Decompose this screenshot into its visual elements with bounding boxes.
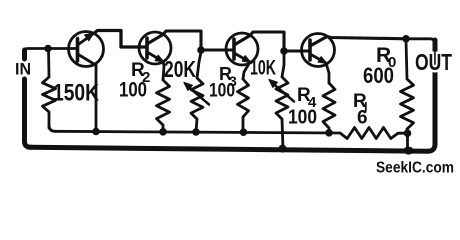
transistor Q4 base bar bbox=[308, 40, 312, 60]
transistor Q3 base bar bbox=[232, 39, 236, 59]
wire outer border bottom side (common rail) bbox=[31, 147, 428, 151]
wire Q3 collector to Q4 base bbox=[234, 32, 309, 51]
svg-text:6: 6 bbox=[357, 108, 368, 129]
resistor R4 bbox=[323, 83, 335, 133]
wire R0/R1 junction down to border bbox=[406, 133, 409, 150]
svg-text:100: 100 bbox=[119, 79, 147, 102]
node Q2 collector/Q3 base/20K junction bbox=[197, 46, 205, 54]
potentiometer 20K body bbox=[191, 52, 203, 132]
transistor Q3 emitter arrow bbox=[242, 56, 250, 63]
potentiometer 10K body bbox=[276, 53, 288, 150]
transistor Q1 emitter lead bbox=[78, 33, 96, 46]
transistor Q4 emitter arrow bbox=[318, 57, 326, 64]
transistor Q2 base bar bbox=[145, 38, 149, 58]
svg-text:OUT: OUT bbox=[415, 49, 452, 75]
svg-text:100: 100 bbox=[209, 81, 235, 102]
wire bottom ground bus bbox=[49, 125, 340, 133]
transistor Q1 body bbox=[69, 32, 104, 67]
resistor 150K bbox=[43, 49, 56, 129]
wire outer border left side (IN rail) bbox=[25, 50, 32, 147]
node R2-rail junction bbox=[159, 128, 167, 136]
node rail-border junction bbox=[403, 147, 413, 155]
wire Q3 emitter to R3 bbox=[234, 53, 250, 79]
resistor R3 bbox=[238, 79, 249, 132]
wire Q4 emitter to R4 bbox=[310, 54, 329, 83]
node R3-rail junction bbox=[240, 128, 248, 136]
wire IN to Q1 base bbox=[25, 49, 78, 53]
svg-text:100: 100 bbox=[288, 107, 317, 129]
svg-text:20K: 20K bbox=[164, 56, 196, 82]
node 20K-rail junction bbox=[192, 128, 200, 136]
wire outer border right side (OUT rail) bbox=[428, 40, 435, 151]
node Q1 collector-rail junction bbox=[92, 128, 100, 136]
svg-text:SeekIC.com: SeekIC.com bbox=[376, 160, 454, 177]
transistor Q4 body bbox=[302, 34, 335, 67]
wire Q1 collector down to rail bbox=[95, 64, 98, 132]
node 10K-border junction bbox=[279, 145, 287, 153]
node IN/150K junction bbox=[44, 45, 52, 53]
transistor Q1 collector lead bbox=[78, 54, 97, 66]
potentiometer 20K arrow shaft bbox=[189, 87, 209, 104]
transistor Q3 body bbox=[226, 33, 258, 65]
svg-text:600: 600 bbox=[363, 63, 394, 88]
transistor Q1 emitter arrow bbox=[85, 33, 94, 41]
svg-text:10K: 10K bbox=[250, 57, 276, 80]
node Q4 collector/R0/OUT junction bbox=[402, 35, 410, 43]
resistor R2 bbox=[157, 80, 170, 132]
transistor Q2 emitter arrow bbox=[155, 55, 163, 62]
wire Q2 emitter to R2 bbox=[147, 52, 164, 80]
wire Q1 emitter to Q2 base bbox=[95, 31, 146, 48]
transistor Q1 base bar bbox=[76, 39, 80, 62]
node R4-rail junction bbox=[325, 129, 333, 137]
potentiometer 10K arrow head bbox=[269, 80, 277, 88]
node Q3 collector/Q4 base/10K junction bbox=[280, 47, 288, 55]
wire output node to OUT terminal bbox=[406, 39, 435, 43]
svg-text:IN: IN bbox=[15, 60, 31, 79]
resistor R1 (horizontal, in ground bus) bbox=[340, 128, 408, 139]
node R0/R1 junction bbox=[404, 129, 412, 137]
transistor Q2 body bbox=[139, 32, 171, 64]
wire Q4 collector to output node bbox=[310, 37, 406, 47]
wire Q2 collector to Q3 base bbox=[147, 31, 233, 50]
resistor R0 bbox=[401, 40, 414, 133]
svg-text:150K: 150K bbox=[53, 80, 100, 107]
potentiometer 20K arrow head bbox=[184, 83, 192, 91]
potentiometer 10K arrow shaft bbox=[274, 84, 294, 101]
